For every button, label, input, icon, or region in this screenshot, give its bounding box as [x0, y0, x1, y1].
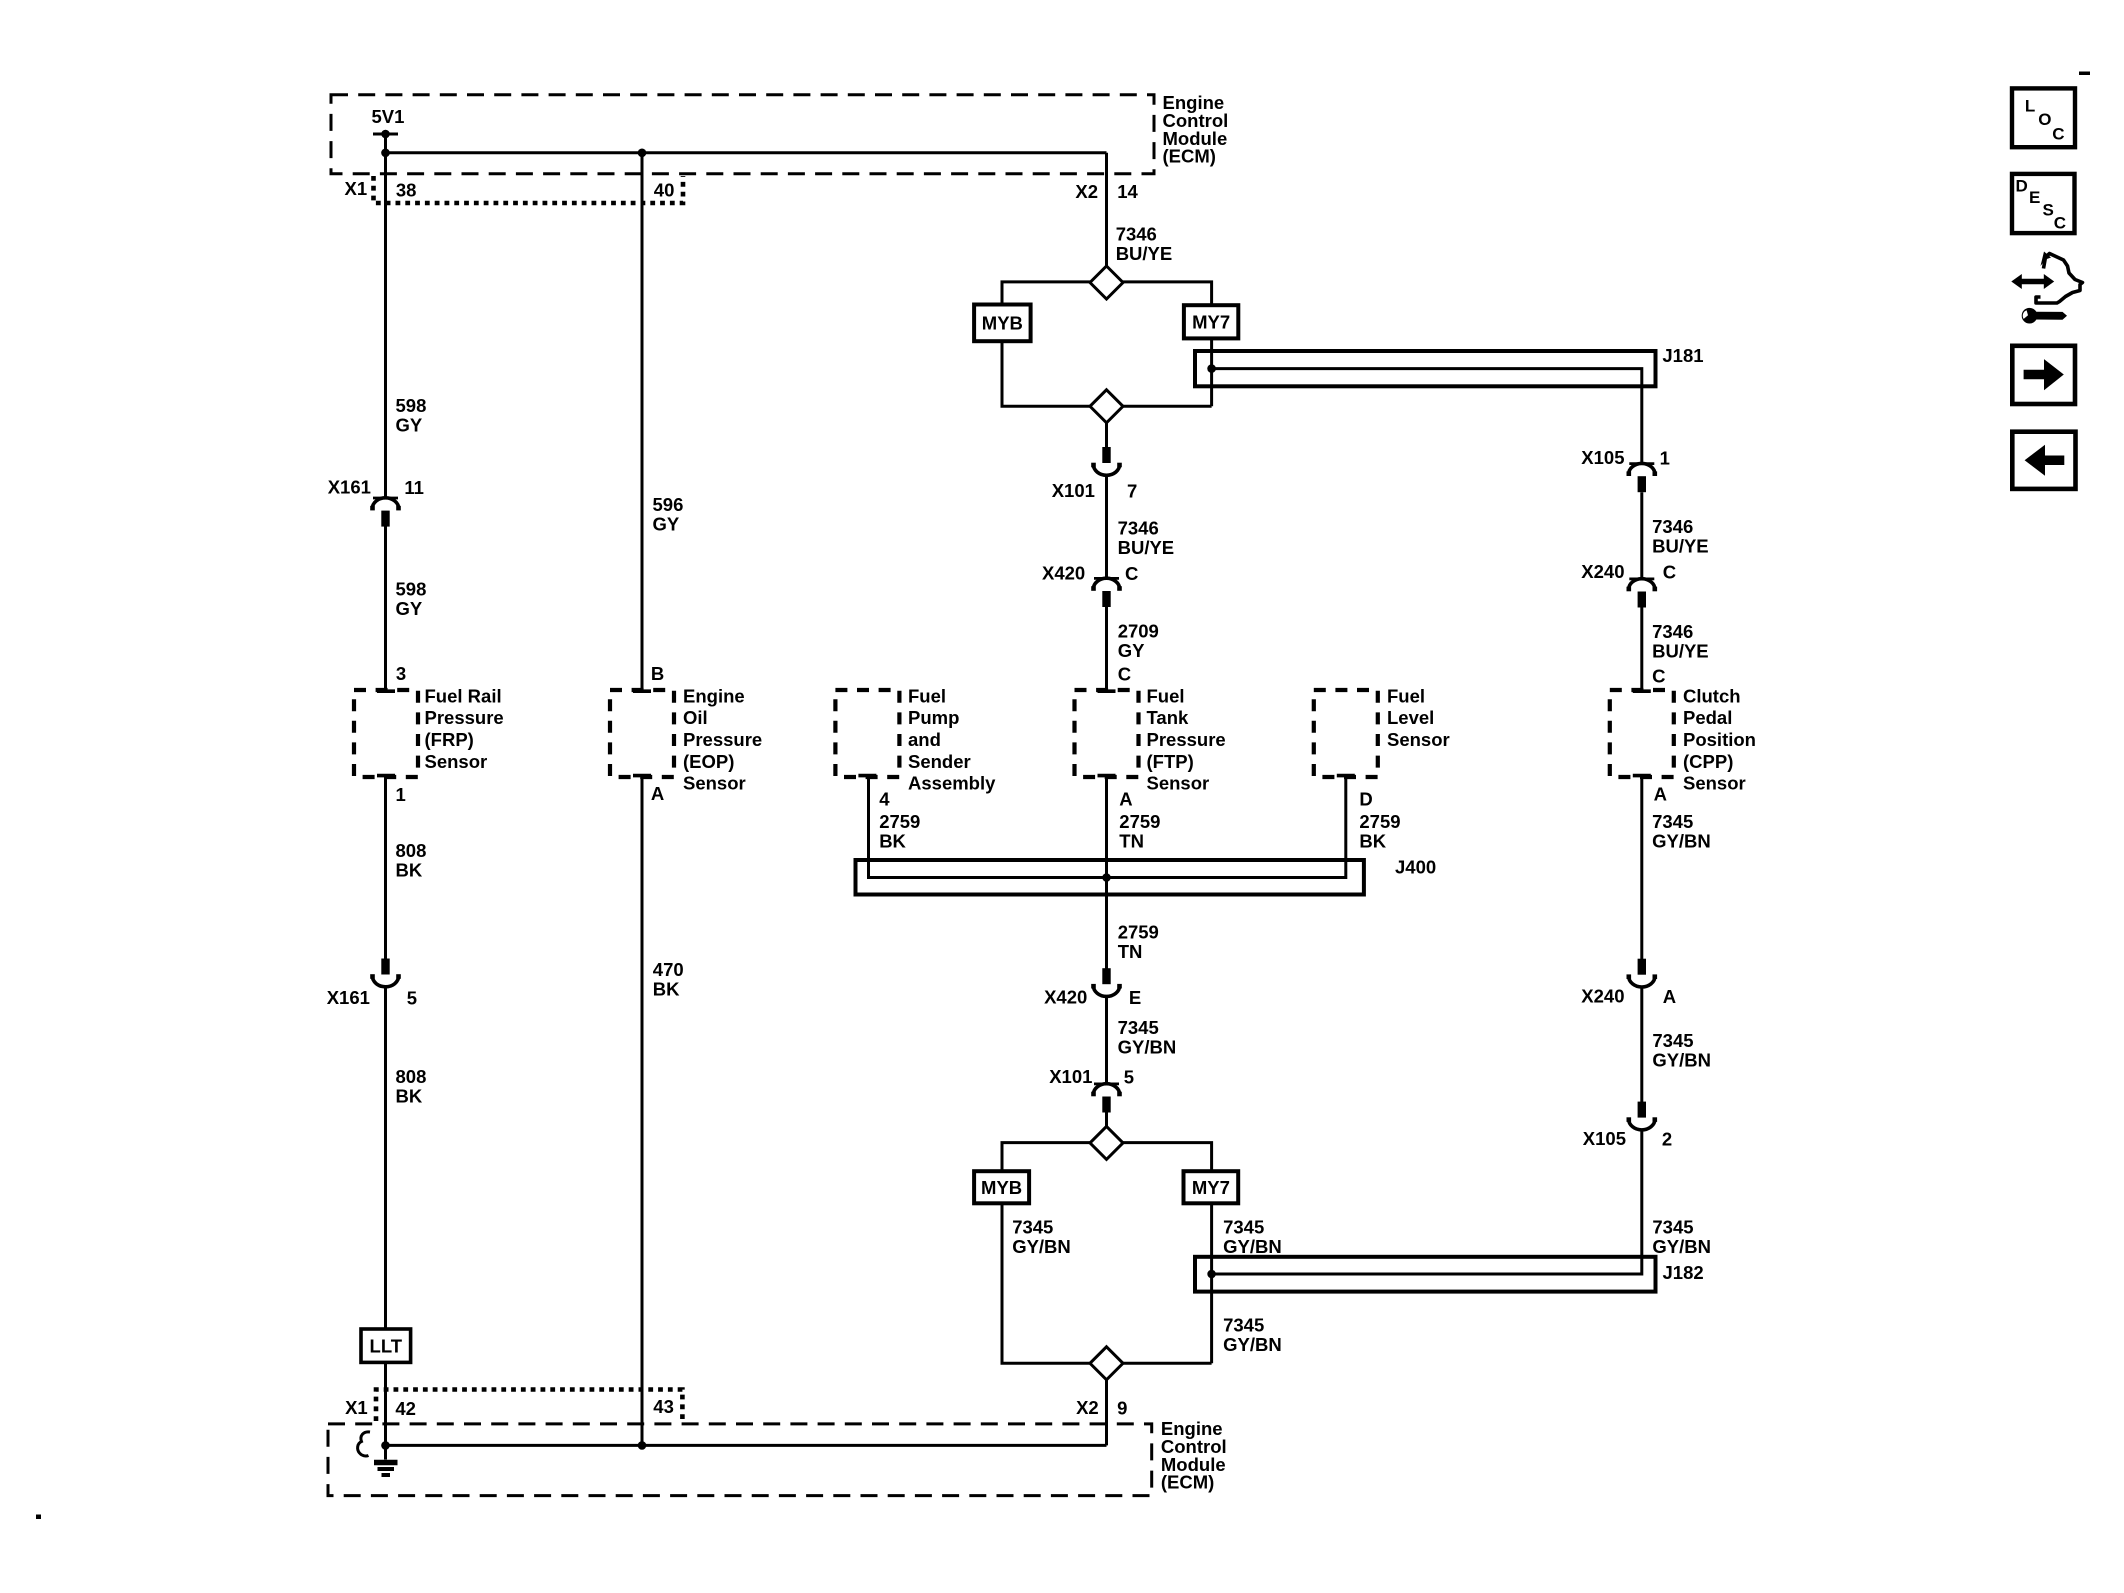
- label wire 2759 BK (right): [1359, 811, 1400, 852]
- wire lower group rail right: [1123, 1143, 1212, 1172]
- connector X420-E: [1091, 968, 1122, 996]
- svg-text:X161: X161: [328, 476, 371, 497]
- svg-text:7345: 7345: [1223, 1315, 1264, 1336]
- fuse MYB (lower): [974, 1171, 1029, 1203]
- svg-text:4: 4: [879, 788, 890, 809]
- ECM bottom dashed outline: [328, 1424, 1152, 1496]
- wire D2 to X101-7: [1105, 423, 1108, 448]
- svg-text:X105: X105: [1581, 447, 1624, 468]
- ECM top label: [1163, 92, 1229, 166]
- svg-text:40: 40: [654, 179, 675, 200]
- svg-text:(ECM): (ECM): [1163, 146, 1216, 167]
- svg-text:(CPP): (CPP): [1683, 751, 1733, 772]
- svg-text:Sensor: Sensor: [425, 751, 488, 772]
- svg-text:Level: Level: [1387, 707, 1434, 728]
- label wire 7346 BU/YE (top): [1116, 223, 1173, 264]
- connector X101-7: [1091, 447, 1122, 475]
- connector label X105 pin 1: [1581, 447, 1670, 469]
- fuse MY7 (lower): [1184, 1171, 1239, 1203]
- svg-text:C: C: [1652, 665, 1665, 686]
- svg-text:42: 42: [395, 1398, 416, 1419]
- svg-text:C: C: [1663, 562, 1676, 583]
- svg-text:GY: GY: [1118, 640, 1145, 661]
- svg-text:L: L: [2025, 96, 2035, 115]
- svg-text:GY/BN: GY/BN: [1223, 1334, 1282, 1355]
- svg-text:2759: 2759: [1118, 921, 1159, 942]
- svg-text:808: 808: [396, 840, 427, 861]
- svg-text:J182: J182: [1663, 1262, 1704, 1283]
- svg-text:598: 598: [396, 395, 427, 416]
- svg-text:7345: 7345: [1012, 1217, 1053, 1238]
- internal connection hook: [358, 1432, 370, 1456]
- svg-text:TN: TN: [1119, 830, 1144, 851]
- 5V1 terminal T-bar: [373, 130, 398, 139]
- Fuel Level Sensor box: [1314, 690, 1378, 777]
- stray mark bottom left: [36, 1515, 41, 1520]
- connector label X101 pin 5: [1049, 1066, 1134, 1088]
- wire lower rail right (upper group): [1123, 405, 1212, 408]
- junction at X1-40 drop: [638, 149, 647, 158]
- svg-text:7345: 7345: [1223, 1217, 1264, 1238]
- connector label X105 pin 2: [1583, 1128, 1672, 1150]
- svg-text:2: 2: [1662, 1129, 1672, 1150]
- svg-text:BK: BK: [396, 1085, 423, 1106]
- svg-text:(EOP): (EOP): [683, 751, 734, 772]
- svg-text:Pressure: Pressure: [425, 707, 504, 728]
- svg-text:Pedal: Pedal: [1683, 707, 1732, 728]
- svg-text:A: A: [1663, 986, 1676, 1007]
- connector label X161 pin 5: [327, 987, 417, 1009]
- wire 7346 BU/YE center: [1105, 476, 1108, 579]
- svg-text:2709: 2709: [1118, 620, 1159, 641]
- wire ECM internal ground bus: [386, 1444, 1107, 1447]
- svg-text:MY7: MY7: [1192, 1177, 1230, 1198]
- junction ground at 43: [638, 1441, 647, 1450]
- svg-text:38: 38: [396, 179, 417, 200]
- splice pack J182 box: [1195, 1257, 1656, 1292]
- svg-text:X240: X240: [1581, 986, 1624, 1007]
- svg-text:7345: 7345: [1118, 1017, 1159, 1038]
- svg-text:7346: 7346: [1652, 621, 1693, 642]
- svg-text:Assembly: Assembly: [908, 773, 996, 794]
- label wire 808 BK (upper): [396, 840, 427, 881]
- svg-text:Pump: Pump: [908, 707, 959, 728]
- label wire 2759 BK (left): [879, 811, 920, 852]
- wire 7345 GY/BN (center upper): [1105, 997, 1108, 1084]
- svg-text:E: E: [1129, 987, 1141, 1008]
- svg-text:Fuel Rail: Fuel Rail: [425, 685, 502, 706]
- connector label X240 pin C: [1581, 561, 1676, 583]
- connector face X1 dotted box (top): [374, 176, 684, 203]
- connector X101-5: [1091, 1084, 1122, 1113]
- svg-text:X1: X1: [345, 1397, 368, 1418]
- svg-text:BU/YE: BU/YE: [1116, 243, 1173, 264]
- fuse MYB (upper): [974, 305, 1031, 342]
- connector X105-1: [1627, 463, 1658, 492]
- wire 7345 GY/BN (right middle): [1640, 987, 1643, 1102]
- svg-text:Sensor: Sensor: [1147, 773, 1210, 794]
- label wire 598 GY (lower): [396, 579, 427, 620]
- wire 2759 BK left: [869, 777, 1346, 878]
- svg-text:GY/BN: GY/BN: [1223, 1236, 1282, 1257]
- svg-text:MYB: MYB: [982, 313, 1023, 334]
- svg-text:1: 1: [1660, 447, 1670, 468]
- EOP sensor label: [683, 685, 762, 793]
- svg-text:A: A: [1119, 788, 1132, 809]
- svg-text:GY/BN: GY/BN: [1652, 1236, 1711, 1257]
- label wire 596 GY: [653, 494, 684, 535]
- fuse MY7 (upper): [1184, 305, 1238, 338]
- svg-text:X1: X1: [345, 178, 368, 199]
- wire top rail right: [1123, 282, 1212, 305]
- wire 808 BK lower segment: [384, 987, 387, 1329]
- svg-text:2759: 2759: [1359, 811, 1400, 832]
- splice diamond D1: [1090, 266, 1123, 299]
- wire main 5V bus horizontal: [384, 151, 1107, 154]
- svg-text:1: 1: [396, 784, 406, 805]
- svg-text:598: 598: [396, 579, 427, 600]
- svg-text:J181: J181: [1662, 345, 1703, 366]
- splice pack J400 box: [856, 860, 1364, 895]
- svg-text:Sensor: Sensor: [1683, 773, 1746, 794]
- svg-text:Clutch: Clutch: [1683, 685, 1741, 706]
- connector X420-C: [1091, 578, 1122, 607]
- svg-text:5V1: 5V1: [372, 106, 405, 127]
- wire 596 GY: [641, 153, 644, 690]
- svg-text:(ECM): (ECM): [1161, 1472, 1214, 1493]
- svg-text:470: 470: [653, 959, 684, 980]
- svg-text:and: and: [908, 729, 941, 750]
- stray mark top right: [2079, 72, 2090, 76]
- svg-text:GY/BN: GY/BN: [1652, 831, 1711, 852]
- LLT box: [361, 1329, 411, 1362]
- svg-text:BK: BK: [1359, 830, 1386, 851]
- wire 2709 GY: [1105, 607, 1108, 690]
- FRP sensor box: [354, 690, 418, 777]
- svg-text:7345: 7345: [1652, 1217, 1693, 1238]
- svg-text:X420: X420: [1042, 562, 1085, 583]
- svg-text:X161: X161: [327, 987, 370, 1008]
- svg-text:J400: J400: [1395, 856, 1436, 877]
- wire X2-14 drop: [1105, 153, 1108, 266]
- wire MYB lower drop (upper group): [1002, 341, 1090, 406]
- connector label X420 pin E: [1044, 987, 1141, 1009]
- connector label X420 pin C: [1042, 562, 1138, 584]
- svg-text:A: A: [1654, 783, 1667, 804]
- svg-text:BK: BK: [879, 830, 906, 851]
- svg-text:7345: 7345: [1652, 811, 1693, 832]
- connector label X161 pin 11: [328, 476, 424, 498]
- svg-text:X420: X420: [1044, 987, 1087, 1008]
- wire MY7 drop through J182: [1210, 1203, 1213, 1363]
- junction at X1-38 drop: [381, 149, 390, 158]
- icon back arrow box: [2012, 432, 2075, 489]
- svg-text:7: 7: [1127, 481, 1137, 502]
- svg-text:A: A: [651, 783, 664, 804]
- connector X161-11: [370, 498, 401, 527]
- icon DESC box: [2012, 174, 2075, 233]
- label wire 7346 BU/YE (center): [1118, 518, 1175, 559]
- splice diamond D4: [1090, 1347, 1123, 1380]
- ECM bottom label: [1161, 1418, 1227, 1492]
- label wire 2759 TN (below J400): [1118, 921, 1159, 962]
- svg-text:BU/YE: BU/YE: [1652, 641, 1709, 662]
- splice diamond D3: [1090, 1126, 1123, 1159]
- wire lower rail right (lower group): [1123, 1362, 1212, 1365]
- svg-text:D: D: [1359, 788, 1372, 809]
- wire 598 GY lower segment: [384, 526, 387, 690]
- svg-text:Position: Position: [1683, 729, 1756, 750]
- connector face X1 dotted box (bottom): [376, 1390, 682, 1422]
- FRP sensor label: [425, 685, 504, 771]
- wire 7345 GY/BN (CPP): [1640, 777, 1643, 959]
- svg-text:MYB: MYB: [981, 1177, 1022, 1198]
- svg-text:X101: X101: [1052, 480, 1095, 501]
- svg-text:GY/BN: GY/BN: [1012, 1236, 1071, 1257]
- svg-text:GY: GY: [396, 415, 423, 436]
- svg-text:BK: BK: [396, 859, 423, 880]
- wire MY7 drop through J181: [1210, 338, 1213, 406]
- svg-text:C: C: [2052, 125, 2064, 144]
- Fuel Pump and Sender Assembly label: [908, 685, 996, 793]
- svg-text:Tank: Tank: [1147, 707, 1190, 728]
- svg-text:BU/YE: BU/YE: [1652, 535, 1709, 556]
- svg-text:D: D: [2016, 176, 2028, 195]
- icon forward arrow box: [2012, 346, 2075, 404]
- svg-text:TN: TN: [1118, 941, 1143, 962]
- wire 598 GY upper segment: [384, 153, 387, 498]
- svg-text:596: 596: [653, 494, 684, 515]
- svg-text:Sender: Sender: [908, 751, 971, 772]
- wire X101-5 to D3: [1105, 1113, 1108, 1129]
- svg-text:2759: 2759: [1119, 811, 1160, 832]
- label wire 7345 GY/BN (CPP): [1652, 811, 1711, 852]
- svg-text:C: C: [1125, 563, 1138, 584]
- ECM top dashed outline: [331, 95, 1154, 174]
- svg-text:2759: 2759: [879, 811, 920, 832]
- svg-text:Fuel: Fuel: [908, 685, 946, 706]
- svg-text:Oil: Oil: [683, 707, 708, 728]
- svg-text:MY7: MY7: [1192, 312, 1230, 333]
- svg-text:LLT: LLT: [370, 1335, 403, 1356]
- svg-text:Engine: Engine: [683, 685, 745, 706]
- connector X161-5: [370, 959, 401, 987]
- svg-text:S: S: [2043, 201, 2054, 220]
- label wire 808 BK (lower): [396, 1066, 427, 1107]
- svg-text:5: 5: [1124, 1066, 1134, 1087]
- svg-text:Pressure: Pressure: [1147, 729, 1226, 750]
- wire LLT to ECM ground: [384, 1362, 387, 1445]
- svg-text:C: C: [1118, 663, 1131, 684]
- svg-text:5: 5: [407, 987, 417, 1008]
- FTP sensor label: [1147, 685, 1226, 793]
- wire MYB drop (lower group): [1002, 1203, 1090, 1363]
- label wire 470 BK: [653, 959, 684, 1000]
- label wire 598 GY (upper): [396, 395, 427, 436]
- svg-text:GY: GY: [653, 513, 680, 534]
- svg-text:Pressure: Pressure: [683, 729, 762, 750]
- svg-text:808: 808: [396, 1066, 427, 1087]
- connector X240-A: [1627, 959, 1658, 987]
- icon harness routing: [2011, 252, 2082, 304]
- wire 470 BK: [641, 777, 644, 1445]
- wire top rail left: [1002, 282, 1090, 305]
- label wire 7345 GY/BN (right middle): [1652, 1030, 1711, 1071]
- svg-text:X240: X240: [1581, 561, 1624, 582]
- connector X105-2: [1627, 1102, 1658, 1130]
- wire 7346 BU/YE (right upper): [1640, 492, 1643, 579]
- svg-text:GY/BN: GY/BN: [1652, 1050, 1711, 1071]
- wire J182 internal bus: [1212, 1130, 1642, 1274]
- svg-text:Fuel: Fuel: [1147, 685, 1185, 706]
- Fuel Pump and Sender Assembly box: [835, 690, 899, 777]
- svg-text:O: O: [2038, 110, 2051, 129]
- svg-text:7346: 7346: [1118, 518, 1159, 539]
- connector label X101 pin 7: [1052, 480, 1138, 502]
- svg-text:43: 43: [653, 1396, 674, 1417]
- label wire 7345 GY/BN (below J182): [1223, 1315, 1282, 1356]
- CPP sensor box: [1610, 690, 1674, 777]
- svg-text:9: 9: [1117, 1398, 1127, 1419]
- wire 5V1 stub: [384, 134, 387, 153]
- svg-text:(FRP): (FRP): [425, 729, 474, 750]
- EOP sensor box: [610, 690, 674, 777]
- svg-text:GY/BN: GY/BN: [1118, 1037, 1177, 1058]
- junction J181: [1207, 364, 1216, 373]
- Fuel Level Sensor label: [1387, 685, 1450, 750]
- svg-text:(FTP): (FTP): [1147, 751, 1194, 772]
- wire J181 internal bus: [1212, 369, 1642, 464]
- wire 7346 BU/YE (right lower): [1640, 608, 1643, 691]
- connector label X240 pin A: [1581, 986, 1676, 1008]
- svg-text:BK: BK: [653, 979, 680, 1000]
- svg-text:BU/YE: BU/YE: [1118, 537, 1175, 558]
- junction J182: [1207, 1270, 1216, 1279]
- svg-text:Sensor: Sensor: [1387, 729, 1450, 750]
- svg-text:B: B: [651, 663, 664, 684]
- label wire 7345 GY/BN (MY7 branch): [1223, 1217, 1282, 1258]
- icon wrench: [2022, 308, 2067, 324]
- svg-text:7346: 7346: [1652, 516, 1693, 537]
- svg-text:X105: X105: [1583, 1128, 1626, 1149]
- label wire 7346 BU/YE (right lower): [1652, 621, 1709, 662]
- wire D4 to ECM X2-9: [1105, 1380, 1108, 1446]
- connector X240-C: [1627, 579, 1658, 608]
- svg-text:X2: X2: [1075, 181, 1098, 202]
- FTP sensor box: [1075, 690, 1139, 777]
- svg-text:3: 3: [396, 663, 406, 684]
- label wire 2709 GY: [1118, 620, 1159, 661]
- svg-text:11: 11: [404, 477, 424, 498]
- svg-text:Fuel: Fuel: [1387, 685, 1425, 706]
- svg-text:X2: X2: [1076, 1397, 1099, 1418]
- label wire 2759 TN (center): [1119, 811, 1160, 852]
- svg-text:C: C: [2054, 214, 2066, 233]
- svg-text:X101: X101: [1049, 1066, 1092, 1087]
- splice diamond D2: [1090, 390, 1123, 423]
- label wire 7345 GY/BN (MYB branch): [1012, 1217, 1071, 1258]
- svg-text:Sensor: Sensor: [683, 773, 746, 794]
- wire lower group rail left: [1002, 1143, 1090, 1172]
- CPP sensor label: [1683, 685, 1756, 793]
- junction J400: [1102, 873, 1111, 882]
- svg-text:7346: 7346: [1116, 223, 1157, 244]
- svg-text:7345: 7345: [1652, 1030, 1693, 1051]
- wire FTP drop through J400: [1105, 777, 1108, 969]
- icon LOC box: [2012, 88, 2075, 147]
- wire 808 BK upper segment: [384, 777, 387, 959]
- svg-text:GY: GY: [396, 598, 423, 619]
- junction ground at 42: [381, 1441, 390, 1450]
- label wire 7345 GY/BN (right lower): [1652, 1217, 1711, 1258]
- ground symbol: [374, 1445, 398, 1475]
- splice pack J181 box: [1195, 351, 1656, 386]
- svg-text:14: 14: [1117, 181, 1138, 202]
- label wire 7345 GY/BN (center upper): [1118, 1017, 1177, 1058]
- label wire 7346 BU/YE (right upper): [1652, 516, 1709, 557]
- svg-text:E: E: [2029, 188, 2040, 207]
